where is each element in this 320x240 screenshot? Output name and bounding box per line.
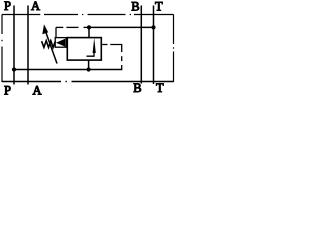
svg-text:T: T: [156, 81, 164, 95]
outlet line to T: [89, 26, 154, 28]
inlet line from P to pilot corner: [14, 69, 122, 71]
enclosure chain-line border bottom: [2, 81, 174, 83]
spring chamber drain riser: [55, 27, 57, 38]
junction dot outlet at T line: [151, 25, 155, 29]
relief valve body square: [67, 38, 101, 61]
enclosure chain-line border left: [1, 15, 3, 83]
internal arrow spike: [93, 38, 96, 53]
svg-text:P: P: [4, 84, 11, 98]
junction dot outlet at riser: [87, 25, 91, 29]
P through line: [13, 6, 15, 85]
spring chamber drain dashed line: [56, 26, 89, 28]
pilot box on square left: [55, 38, 66, 48]
svg-text:B: B: [133, 81, 141, 95]
pilot dashed line from square right to inlet: [102, 45, 122, 70]
B through line: [140, 6, 142, 84]
junction dot on P line: [12, 67, 16, 71]
T through line: [153, 6, 155, 85]
svg-text:P: P: [4, 0, 11, 13]
internal flow path jog: [87, 53, 95, 57]
enclosure chain-line border right: [173, 15, 175, 83]
svg-text:A: A: [31, 0, 40, 13]
filled left arrow in pilot box: [56, 39, 65, 47]
spring zigzag: [42, 41, 56, 48]
svg-text:T: T: [155, 0, 163, 14]
junction dot valve riser on inlet line: [87, 67, 91, 71]
adjustment arrow shaft: [45, 31, 57, 64]
svg-text:B: B: [131, 0, 139, 14]
enclosure chain-line border top: [2, 14, 174, 16]
A through line: [27, 6, 29, 85]
adjustment arrowhead: [42, 24, 48, 34]
outlet riser above square: [88, 27, 90, 37]
valve riser below square: [88, 60, 90, 70]
svg-text:A: A: [33, 84, 42, 98]
